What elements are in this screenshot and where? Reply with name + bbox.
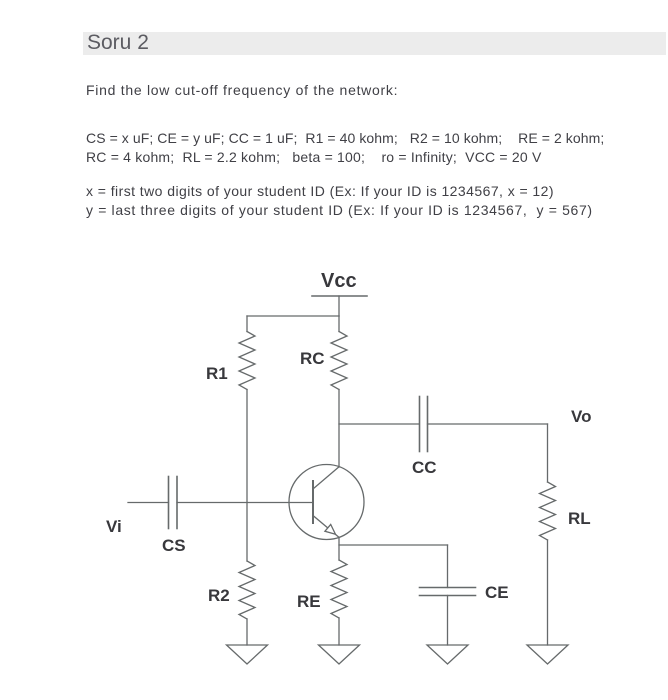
ground under RL	[527, 645, 568, 664]
svg-text:Vcc: Vcc	[321, 270, 357, 292]
wire RC bottom to collector	[338, 390, 340, 468]
resistor RE	[331, 560, 347, 618]
wire R2 to ground	[246, 619, 248, 645]
resistor RL	[540, 482, 556, 540]
svg-text:Vi: Vi	[106, 517, 122, 536]
svg-text:R1: R1	[206, 364, 228, 383]
resistor RC	[331, 332, 347, 390]
ground under CE	[427, 645, 468, 664]
wire emitter node to CE	[339, 544, 448, 546]
svg-text:RE: RE	[297, 592, 321, 611]
wire Vi input	[128, 502, 169, 504]
svg-text:R2: R2	[208, 586, 230, 605]
svg-text:CS: CS	[162, 536, 186, 555]
wire top rail	[247, 315, 339, 317]
wire down to RL	[547, 424, 549, 482]
wire CE branch down	[447, 545, 449, 588]
resistor R2	[239, 561, 255, 619]
wire Vcc stem	[338, 296, 340, 316]
capacitor CC	[419, 397, 421, 452]
wire RL to ground	[547, 540, 549, 645]
ground under RE	[319, 645, 360, 664]
wire CE to ground	[447, 596, 449, 646]
wire CS to base	[177, 502, 313, 504]
svg-text:RC: RC	[300, 349, 325, 368]
svg-text:CC: CC	[412, 458, 437, 477]
transistor Q1	[289, 465, 364, 540]
wire R1 top stub	[246, 316, 248, 332]
question text	[86, 82, 398, 98]
resistor R1	[239, 332, 255, 390]
svg-text:CE: CE	[485, 583, 509, 602]
svg-text:RL: RL	[568, 509, 591, 528]
header bar	[83, 32, 666, 55]
capacitor CS	[168, 477, 170, 529]
wire emitter down	[338, 537, 340, 560]
capacitor CE	[420, 587, 476, 589]
Vcc supply bar	[312, 295, 367, 297]
wire CC to output corner	[428, 423, 548, 425]
wire RC top stub	[338, 316, 340, 332]
ground under R2	[227, 645, 268, 664]
wire RE to ground	[338, 618, 340, 645]
wire collector node to CC	[339, 423, 419, 425]
svg-text:Vo: Vo	[571, 407, 591, 426]
wire R1 bottom to base node to R2	[246, 390, 248, 562]
